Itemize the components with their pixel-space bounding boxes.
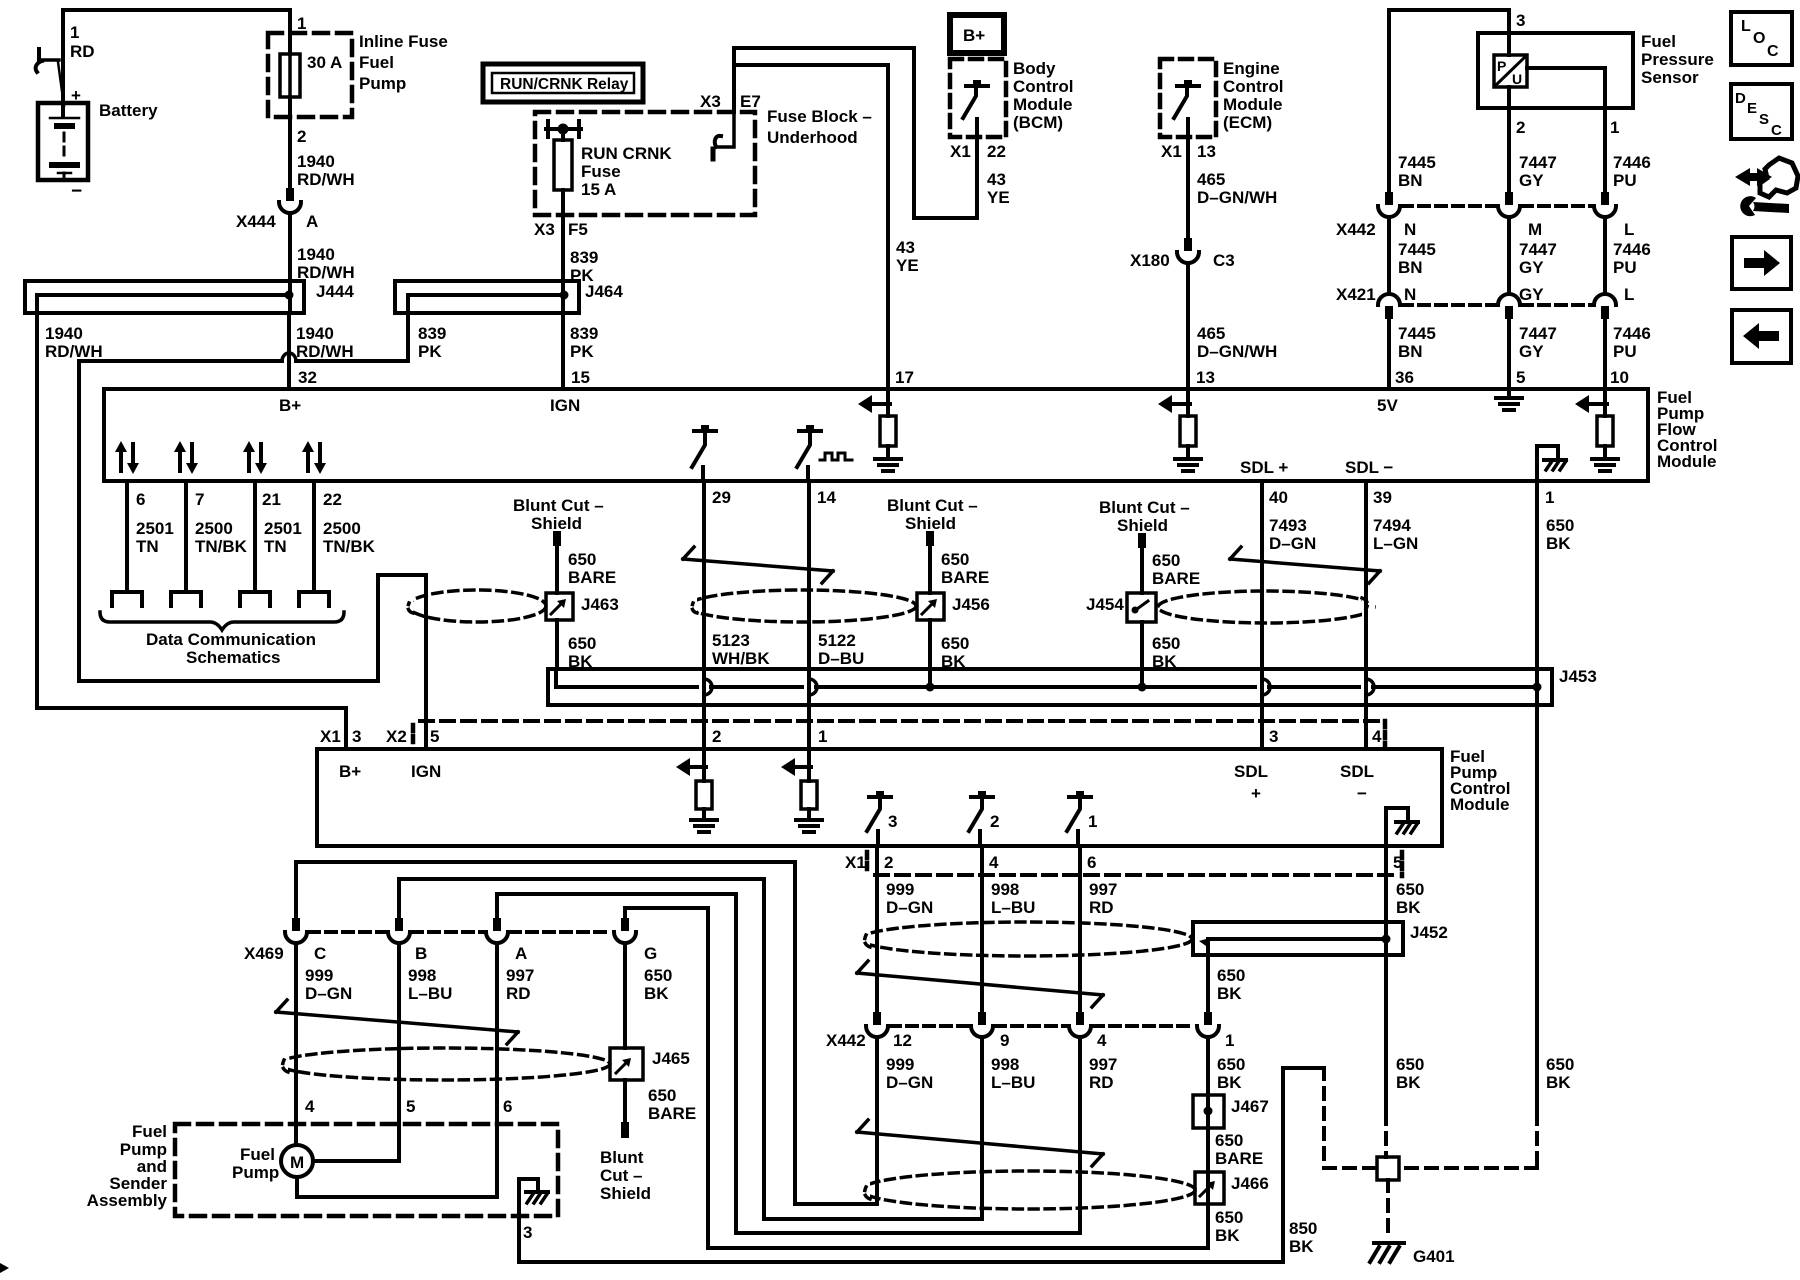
internal switch pin 14 [797,425,821,481]
splice pack J444 [25,281,354,313]
wires between X442 and X421 [1389,217,1605,292]
twisted pair symbol below X469 [276,1000,518,1044]
svg-text:−: − [71,181,82,202]
svg-text:Module: Module [1450,795,1510,814]
svg-text:RD/WH: RD/WH [297,170,355,189]
svg-text:7447: 7447 [1519,240,1557,259]
svg-text:−: − [1357,784,1367,803]
svg-text:B: B [415,944,427,963]
svg-text:650: 650 [1396,880,1424,899]
svg-text:SDL −: SDL − [1345,458,1393,477]
svg-text:3: 3 [888,812,897,831]
svg-text:650: 650 [1546,1055,1574,1074]
wire pin 7 to staple [184,481,188,592]
wire pin 6 to staple [125,481,129,592]
label SDL - FPCM [1340,762,1374,803]
svg-text:BK: BK [1546,1073,1571,1092]
svg-text:3: 3 [1516,11,1525,30]
svg-text:F5: F5 [568,220,588,239]
labels pins 4 5 6 fuel pump [305,1097,512,1116]
svg-text:E: E [1747,100,1757,117]
svg-text:D–GN: D–GN [886,1073,933,1092]
svg-text:Battery: Battery [99,101,158,120]
svg-text:GY: GY [1519,285,1544,304]
svg-text:X2: X2 [386,727,407,746]
FPCM internal switch 1 [1067,791,1097,846]
wires X421 to module pins 36 5 10 [1389,319,1605,389]
svg-text:1940: 1940 [296,324,334,343]
svg-text:Blunt Cut –: Blunt Cut – [887,496,978,515]
label Fuel Pump Flow Control Module [1657,388,1717,471]
labels 999 D-GN / 998 L-BU / 997 RD / 650 BK at X469 [305,966,672,1003]
pin 5 internal ground [1496,389,1522,410]
svg-text:PK: PK [570,342,594,361]
labels 1 / 650 BK pin 1 [1545,488,1574,553]
pin 10 internal: arrow, resistor, ground [1575,389,1618,471]
RUN/CRNK Relay label box [483,64,643,102]
svg-text:Assembly: Assembly [87,1191,168,1210]
wire 998 X442-9 to X469-B route [399,879,982,1219]
svg-text:1: 1 [70,23,79,42]
svg-text:RD/WH: RD/WH [45,342,103,361]
svg-text:X444: X444 [236,212,276,231]
wire FPCM pin 2 to X442-12 [875,846,879,1012]
twisted pair symbol above J466 ellipse [857,1120,1103,1166]
svg-text:21: 21 [262,490,281,509]
svg-text:BARE: BARE [648,1104,696,1123]
svg-text:BARE: BARE [1215,1149,1263,1168]
svg-text:(BCM): (BCM) [1013,113,1063,132]
hook symbol (partial-circuit) at battery wire [58,62,64,106]
wire pin 1 650 BK down through J453 [1535,481,1539,687]
svg-text:G: G [644,944,657,963]
svg-text:5122: 5122 [818,631,856,650]
svg-text:1: 1 [1610,118,1619,137]
svg-text:13: 13 [1196,368,1215,387]
FPCM pin 1 internal: arrow, resistor, ground [781,749,822,832]
svg-text:GY: GY [1519,171,1544,190]
svg-text:17: 17 [895,368,914,387]
svg-text:650: 650 [1546,516,1574,535]
svg-text:J453: J453 [1559,667,1597,686]
serial data arrow pair pin 22 [302,441,326,474]
G401 ground [1370,1180,1455,1266]
svg-text:L–BU: L–BU [408,984,452,1003]
svg-text:13: 13 [1197,142,1216,161]
svg-text:998: 998 [408,966,436,985]
wire 850 BK pump ground to G401 [519,1068,1377,1262]
svg-text:YE: YE [896,256,919,275]
svg-text:X1: X1 [320,727,341,746]
svg-text:650: 650 [1215,1208,1243,1227]
svg-text:3: 3 [1269,727,1278,746]
wire FPCM pin 4 to X442-9 [980,846,984,1012]
splice J467 [1193,1095,1269,1128]
svg-text:BK: BK [1217,1073,1242,1092]
icon right arrow box [1732,237,1791,289]
splice J454 with shield arrow [1086,593,1156,622]
wire top rail to inline fuse [63,10,290,33]
svg-text:39: 39 [1373,488,1392,507]
svg-text:TN: TN [136,537,159,556]
svg-text:S: S [1759,111,1769,128]
wire 650 BK X442-1 through J467 J466 [625,908,1208,1248]
serial data arrow pair pin 6 [115,441,139,474]
shield ellipse to J466 [856,1171,1195,1209]
wire BCM pin X1-22 down [975,119,979,218]
svg-text:2: 2 [297,127,306,146]
labels 999 D-GN / 998 L-BU / 997 RD upper [886,880,1117,917]
svg-text:4: 4 [989,853,999,872]
svg-text:Body: Body [1013,59,1056,78]
labels 7445 BN / 7447 GY / 7446 PU upper [1398,153,1651,190]
svg-text:B+: B+ [963,26,985,45]
wire sensor pin 3 to X442-N, label 3 [1389,10,1525,192]
svg-text:RD: RD [506,984,531,1003]
wire ECM pin X1-13 down [1186,119,1190,238]
svg-text:7: 7 [195,490,204,509]
labels FPCM top pins X1 3 X2 5 2 1 3 4 [320,727,1382,746]
svg-text:43: 43 [987,170,1006,189]
svg-text:BN: BN [1398,342,1423,361]
wire 650 BK J452 down to G401 [1386,955,1424,1157]
labels 39 / 7494 L-GN [1373,488,1418,553]
svg-text:Fuel: Fuel [240,1145,275,1164]
splice J456 with shield arrow [917,593,990,620]
wire IGN net J464 left with hop over pin32 wire, down to FPCM X2-5 [79,313,426,749]
icon left arrow box [1732,310,1791,363]
svg-text:RD/WH: RD/WH [296,342,354,361]
svg-text:IGN: IGN [411,762,441,781]
svg-text:2: 2 [884,853,893,872]
svg-text:WH/BK: WH/BK [712,649,770,668]
svg-text:Fuel: Fuel [132,1122,167,1141]
B+ power box [950,15,1004,53]
labels 7445 BN / 7447 GY / 7446 PU lower [1398,324,1651,361]
svg-text:10: 10 [1610,368,1629,387]
svg-text:40: 40 [1269,488,1288,507]
svg-text:999: 999 [886,1055,914,1074]
svg-text:RUN CRNK: RUN CRNK [581,144,672,163]
labels 999 D-GN / 998 L-BU / 997 RD / 650 BK lower [886,1055,1245,1092]
svg-text:BARE: BARE [1152,569,1200,588]
label Body Control Module (BCM) [1013,59,1073,132]
svg-text:650: 650 [1217,1055,1245,1074]
svg-text:4: 4 [305,1097,315,1116]
connector X442 second row pins 12 9 4 1 [826,1012,1234,1050]
svg-text:L: L [1624,285,1634,304]
svg-text:SDL +: SDL + [1240,458,1288,477]
svg-text:E7: E7 [740,92,761,111]
svg-text:X442: X442 [826,1031,866,1050]
svg-text:D–BU: D–BU [818,649,864,668]
svg-text:Blunt Cut –: Blunt Cut – [513,496,604,515]
svg-text:650: 650 [1217,966,1245,985]
svg-text:J452: J452 [1410,923,1448,942]
svg-text:B+: B+ [279,396,301,415]
FPCM connector X1 dashed row bottom [875,873,1397,877]
svg-text:Module: Module [1223,95,1283,114]
Fuel Pressure Sensor box [1478,33,1633,108]
svg-text:650: 650 [568,634,596,653]
wire 997 X442-4 to X469-A route [497,894,1080,1233]
svg-text:+: + [71,86,81,105]
svg-text:850: 850 [1289,1219,1317,1238]
pressure transducer P/U symbol [1494,55,1527,87]
svg-text:Control: Control [1223,77,1283,96]
svg-text:A: A [515,944,527,963]
FPCM connector X2 dashed row [420,719,1380,723]
svg-text:22: 22 [987,142,1006,161]
svg-text:839: 839 [570,248,598,267]
wire J456 to J453 bus [928,620,932,687]
labels 40 / 7493 D-GN [1269,488,1316,553]
svg-text:Pump: Pump [232,1163,279,1182]
BCM internal switch [963,80,988,118]
wire F5 through J464, label 839 PK [563,215,598,285]
svg-text:650: 650 [1152,634,1180,653]
blunt cut shield stub J463 [513,496,616,593]
svg-text:998: 998 [991,1055,1019,1074]
svg-text:J465: J465 [652,1049,690,1068]
svg-text:Underhood: Underhood [767,128,858,147]
splice J463 with shield arrow [546,593,619,620]
svg-text:TN/BK: TN/BK [323,537,376,556]
svg-text:1: 1 [1545,488,1554,507]
svg-text:36: 36 [1395,368,1414,387]
FPCM pin 5 internal chassis ground [1386,808,1418,846]
svg-text:J464: J464 [585,282,623,301]
svg-text:X469: X469 [244,944,284,963]
svg-text:RD: RD [1089,1073,1114,1092]
icon arrows and wrench [1735,158,1798,216]
blunt cut shield stub J456 [887,496,989,593]
wire J454 to J453 bus [1140,622,1144,687]
svg-text:J456: J456 [952,595,990,614]
wire 999 X442-12 to X469-C route [296,862,877,1204]
svg-text:BK: BK [1217,984,1242,1003]
svg-text:7493: 7493 [1269,516,1307,535]
wire 650 BK J453 down to G401 [1399,687,1574,1168]
svg-text:N: N [1404,285,1416,304]
connector X442 row: pins N M L [1336,192,1634,239]
wire J452 down to X442-1 [1206,955,1210,1012]
svg-text:BK: BK [1396,898,1421,917]
wire X469-B down to fuel pump [313,943,399,1161]
svg-text:RUN/CRNK Relay: RUN/CRNK Relay [500,76,629,93]
wire 839 PK J464 to module pin 15 [561,313,565,389]
svg-text:2: 2 [712,727,721,746]
wire fuel pump bottom to pin 6 wire [297,1177,497,1197]
svg-text:RD: RD [70,42,95,61]
svg-text:X1: X1 [845,853,866,872]
svg-text:Inline Fuse: Inline Fuse [359,32,448,51]
wire pin 22 to staple [312,481,316,592]
svg-text:O: O [1753,30,1765,47]
Fuel Pump Control Module box [317,749,1442,846]
svg-text:15 A: 15 A [581,180,616,199]
wire pin 14 down to FPCM pin 1 [807,481,811,749]
svg-text:(ECM): (ECM) [1223,113,1272,132]
wires sensor pins 2,1 down [1509,108,1605,192]
wire J463 to J453 bus [555,620,559,669]
Fuel Pump and Sender Assembly dashed box [175,1124,558,1216]
sender internal chassis ground pin 3 [519,1179,548,1262]
twisted pair symbol below J452 [857,961,1103,1007]
svg-text:N: N [1404,220,1416,239]
svg-text:Blunt: Blunt [600,1148,644,1167]
svg-text:Shield: Shield [531,514,582,533]
svg-text:Blunt Cut –: Blunt Cut – [1099,498,1190,517]
svg-text:SDL: SDL [1340,762,1374,781]
svg-text:Cut –: Cut – [600,1166,643,1185]
serial data arrow pair pin 21 [243,441,267,474]
svg-text:TN/BK: TN/BK [195,537,248,556]
blunt cut stub under J465 [600,1080,651,1203]
svg-text:650: 650 [1152,551,1180,570]
wire pin 29 down to FPCM pin 2 [702,481,706,749]
svg-text:X3: X3 [700,92,721,111]
label Inline Fuse Fuel Pump [359,32,448,93]
svg-text:7446: 7446 [1613,240,1651,259]
svg-text:1: 1 [297,14,306,33]
svg-text:5: 5 [1393,853,1402,872]
wire pin 21 to staple [253,481,257,592]
svg-text:Fuel: Fuel [1641,32,1676,51]
svg-text:D: D [1735,90,1746,107]
svg-text:D–GN: D–GN [886,898,933,917]
svg-text:P: P [1497,58,1506,74]
svg-text:1: 1 [818,727,827,746]
svg-text:6: 6 [503,1097,512,1116]
svg-text:X3: X3 [534,220,555,239]
serial data arrow pair pin 7 [174,441,198,474]
svg-text:J463: J463 [581,595,619,614]
svg-text:Schematics: Schematics [186,648,281,667]
pin 13 internal: arrow, resistor, ground [1158,389,1201,471]
svg-text:BARE: BARE [568,568,616,587]
connector X469 row pins C B A G [244,918,657,963]
svg-text:43: 43 [896,238,915,257]
svg-text:650: 650 [648,1086,676,1105]
wire battery positive up to top rail [61,10,65,103]
svg-text:PU: PU [1613,258,1637,277]
svg-text:D–GN/WH: D–GN/WH [1197,188,1277,207]
svg-text:X421: X421 [1336,285,1376,304]
svg-text:2: 2 [990,812,999,831]
wire pin 39 down to FPCM pin 4 [1364,481,1368,749]
svg-text:2500: 2500 [323,519,361,538]
brace under serial data pins [100,612,344,630]
svg-text:BN: BN [1398,258,1423,277]
wire fuse to X444, label 2 / 1940 RD/WH [290,117,355,189]
svg-text:1: 1 [1225,1031,1234,1050]
svg-text:U: U [1512,71,1522,87]
svg-text:Control: Control [1013,77,1073,96]
svg-text:839: 839 [570,324,598,343]
inline fuse dashed box [268,33,352,117]
svg-text:7446: 7446 [1613,324,1651,343]
svg-text:D–GN: D–GN [305,984,352,1003]
svg-text:D–GN: D–GN [1269,534,1316,553]
svg-text:G401: G401 [1413,1247,1455,1266]
pin 17 internal: arrow, resistor, ground [858,389,901,471]
svg-text:12: 12 [893,1031,912,1050]
svg-text:650: 650 [941,550,969,569]
svg-text:Pressure: Pressure [1641,50,1714,69]
svg-text:D–GN/WH: D–GN/WH [1197,342,1277,361]
label Engine Control Module (ECM) [1223,59,1283,132]
splice J465 with shield arrow [610,1048,690,1080]
svg-text:2: 2 [1516,118,1525,137]
svg-text:5: 5 [1516,368,1525,387]
svg-text:7445: 7445 [1398,153,1436,172]
svg-text:7447: 7447 [1519,153,1557,172]
svg-text:650: 650 [1215,1131,1243,1150]
svg-text:J444: J444 [316,282,354,301]
svg-text:3: 3 [523,1223,532,1242]
wire FPCM pin 6 to X442-4 [1078,846,1082,1012]
svg-text:7446: 7446 [1613,153,1651,172]
FPCM internal switch 3 [867,791,897,846]
FPCM internal switch 2 [969,791,999,846]
twisted pair symbol wires 29/14 [683,547,833,583]
label SDL + FPCM [1234,762,1268,803]
svg-text:3: 3 [352,727,361,746]
svg-text:YE: YE [987,188,1010,207]
splice J466 with shield arrow [1195,1172,1269,1204]
wire pin 40 down to FPCM pin 3 [1260,481,1264,749]
connector X180 pin C3 [1130,238,1235,389]
svg-text:X1: X1 [1161,142,1182,161]
svg-text:Data Communication: Data Communication [146,630,316,649]
labels pins 6 7 21 22 [136,490,342,509]
svg-text:5: 5 [430,727,439,746]
svg-text:30 A: 30 A [307,53,342,72]
labels FPCM bottom pins X1 2 4 6 5 [845,853,1402,872]
ECM internal switch [1174,80,1199,118]
svg-text:6: 6 [1087,853,1096,872]
svg-text:1: 1 [1088,812,1097,831]
svg-text:A: A [306,212,318,231]
svg-text:Module: Module [1657,452,1717,471]
labels 2501 TN / 2500 TN/BK circuits [136,519,376,556]
labels 5123 WH/BK and 5122 D-BU [712,631,864,668]
splice pack J464 [395,281,623,313]
shield ellipse to J463 [400,590,546,622]
svg-text:TN: TN [264,537,287,556]
svg-text:L–BU: L–BU [991,1073,1035,1092]
svg-text:1940: 1940 [297,152,335,171]
svg-text:465: 465 [1197,324,1225,343]
svg-text:GY: GY [1519,342,1544,361]
svg-text:C3: C3 [1213,251,1235,270]
off-page staple terminal pin 7 [171,592,201,606]
svg-text:650: 650 [941,634,969,653]
svg-text:Shield: Shield [905,514,956,533]
svg-text:J454: J454 [1086,595,1124,614]
wire X469-A down to pump return [495,943,499,1197]
svg-text:5123: 5123 [712,631,750,650]
icon DESC box [1731,84,1792,139]
svg-text:Sensor: Sensor [1641,68,1699,87]
labels 7445 BN / 7447 GY / 7446 PU middle [1398,240,1651,277]
svg-text:IGN: IGN [550,396,580,415]
svg-text:997: 997 [1089,880,1117,899]
wire B+ net J444 to FPCM X1-3 [37,295,346,749]
svg-text:465: 465 [1197,170,1225,189]
twisted pair symbol wires 40/39 [1230,547,1380,583]
